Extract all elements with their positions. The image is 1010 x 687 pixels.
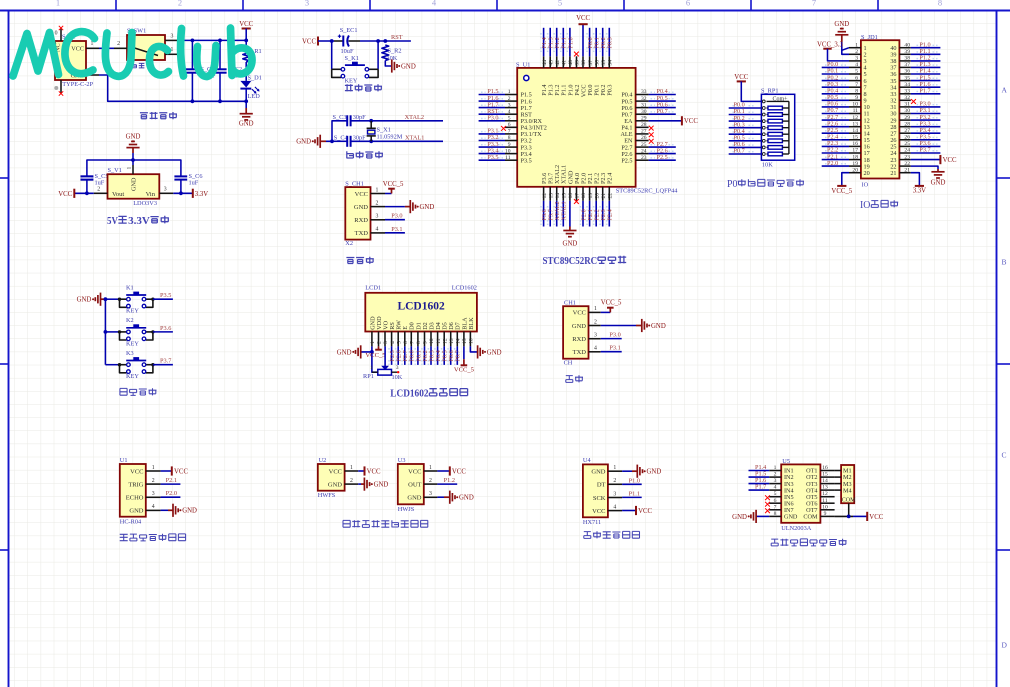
wire U1 VCC	[161, 470, 172, 472]
wire P2.0	[161, 496, 181, 498]
no-ERC bottom pin17	[574, 199, 579, 204]
junction	[383, 39, 387, 43]
svg-text:VCC_5: VCC_5	[601, 300, 622, 307]
svg-text:4: 4	[594, 346, 597, 352]
svg-text:S_D1: S_D1	[248, 74, 262, 81]
svg-text:S_EC1: S_EC1	[340, 27, 358, 34]
svg-text:OUT: OUT	[408, 481, 421, 488]
svg-text:16: 16	[852, 141, 858, 147]
svg-text:2: 2	[429, 478, 432, 484]
svg-text:5: 5	[774, 491, 777, 497]
svg-text:P3.0: P3.0	[487, 115, 498, 122]
svg-text:KEY: KEY	[126, 340, 139, 347]
svg-text:GND: GND	[647, 469, 662, 476]
svg-text:DT: DT	[597, 482, 606, 489]
power VCC JD1 right	[940, 155, 957, 164]
svg-text:10K: 10K	[762, 162, 773, 169]
svg-text:GND: GND	[239, 120, 254, 127]
svg-text:4: 4	[390, 341, 396, 344]
capacitor C3 30pF	[333, 114, 367, 126]
wire VCC rail	[245, 29, 247, 48]
svg-text:VCC: VCC	[592, 508, 605, 515]
svg-text:P1.0: P1.0	[567, 37, 574, 48]
junction	[244, 99, 248, 103]
MCU right pins	[636, 89, 649, 161]
svg-text:1: 1	[508, 89, 511, 95]
svg-text:1: 1	[370, 365, 373, 371]
wire XTAL1	[351, 140, 443, 142]
JD1 left pins	[849, 42, 861, 173]
svg-text:GND: GND	[784, 514, 798, 521]
no-ERC pins 28,27,26	[649, 126, 654, 131]
svg-text:30: 30	[641, 109, 647, 115]
svg-text:P2.5: P2.5	[657, 154, 668, 161]
svg-text:7: 7	[508, 129, 511, 135]
svg-text:P2.0: P2.0	[166, 490, 177, 497]
svg-text:9: 9	[508, 142, 511, 148]
svg-text:38: 38	[904, 56, 910, 62]
JD1 right P1/P3 wires	[911, 41, 941, 153]
svg-text:3: 3	[396, 365, 399, 371]
power VCC_5 JD1	[831, 186, 852, 195]
svg-text:C: C	[1002, 451, 1007, 460]
svg-text:2: 2	[117, 41, 120, 47]
svg-text:LCD1602: LCD1602	[390, 389, 428, 400]
wire VCC to Vout	[74, 192, 93, 194]
svg-text:41: 41	[562, 60, 568, 66]
power VCC U2	[365, 466, 382, 475]
caption 四相五线步进电机	[771, 539, 846, 546]
svg-text:GND: GND	[563, 241, 578, 248]
wire U3 GND	[437, 496, 444, 498]
svg-text:15: 15	[462, 338, 468, 344]
power VCC U4	[636, 506, 653, 515]
svg-text:VCC: VCC	[576, 15, 590, 22]
svg-text:VCC_3.3: VCC_3.3	[817, 42, 843, 49]
svg-text:43: 43	[548, 60, 554, 66]
caption 复位电路	[345, 84, 382, 91]
switch SW1	[114, 28, 181, 69]
svg-text:14: 14	[555, 193, 561, 199]
svg-text:15: 15	[822, 472, 828, 478]
svg-text:1: 1	[774, 465, 777, 471]
caption 压力检测模块	[584, 531, 640, 538]
svg-text:36: 36	[594, 60, 600, 66]
svg-text:22: 22	[904, 161, 910, 167]
potentiometer RP1 10K	[363, 365, 403, 381]
power VCC U1	[172, 466, 189, 475]
svg-text:VCC_5: VCC_5	[383, 181, 404, 188]
junction	[330, 139, 334, 143]
svg-text:7: 7	[410, 341, 416, 344]
ground power circuit	[239, 114, 254, 128]
caption 晶振电路	[347, 151, 383, 158]
svg-text:7: 7	[774, 504, 777, 510]
svg-text:9: 9	[824, 511, 827, 517]
JD1 left P0/P2 wires	[822, 61, 849, 167]
svg-text:P3.5: P3.5	[521, 157, 532, 164]
MCU left pins	[505, 89, 517, 161]
svg-text:1: 1	[56, 0, 60, 8]
junction	[330, 39, 334, 43]
svg-text:P0.7: P0.7	[657, 108, 668, 115]
svg-text:13: 13	[449, 338, 455, 344]
svg-text:22: 22	[608, 193, 614, 199]
svg-text:37: 37	[904, 62, 910, 68]
button bus wires	[105, 298, 119, 300]
svg-text:1uF: 1uF	[189, 180, 199, 187]
caption LCD1602显示模块	[390, 389, 467, 400]
resistor R2 10K	[382, 45, 402, 62]
svg-text:GND: GND	[591, 469, 605, 476]
svg-text:10: 10	[429, 338, 435, 344]
svg-text:P1.7: P1.7	[919, 88, 930, 95]
wire GND to pins 1,2	[842, 42, 849, 54]
svg-text:34: 34	[904, 82, 910, 88]
svg-text:2: 2	[774, 472, 777, 478]
wire U5 GND	[756, 515, 769, 517]
wire pin2 to GND	[385, 206, 405, 208]
button K2	[118, 317, 155, 347]
MCU top wires and net labels	[541, 24, 614, 56]
svg-text:P0.7: P0.7	[455, 350, 462, 361]
svg-text:VCC: VCC	[943, 157, 957, 164]
svg-text:3: 3	[613, 491, 616, 497]
wire T1 GND return	[99, 75, 246, 101]
ground MCU	[569, 227, 571, 231]
svg-text:VCC: VCC	[367, 468, 381, 475]
no-ERC pin6	[501, 126, 506, 131]
svg-text:VCC: VCC	[573, 310, 586, 317]
wire EA to VCC	[649, 120, 682, 122]
svg-text:8: 8	[416, 341, 422, 344]
svg-text:GND: GND	[651, 323, 666, 330]
svg-text:39: 39	[575, 60, 581, 66]
svg-text:4: 4	[774, 485, 777, 491]
ground LCD left	[337, 345, 361, 358]
ground serial	[642, 319, 666, 332]
svg-text:2: 2	[152, 478, 155, 484]
svg-text:44: 44	[542, 60, 548, 66]
svg-text:GND: GND	[374, 482, 389, 489]
wire pin2 GND	[601, 325, 636, 327]
module U4 HX711	[583, 457, 622, 526]
svg-text:18: 18	[581, 193, 587, 199]
svg-text:LCD1: LCD1	[365, 284, 381, 291]
svg-text:GND: GND	[420, 204, 435, 211]
svg-text:10: 10	[505, 148, 511, 154]
svg-text:8: 8	[855, 89, 858, 95]
svg-text:2: 2	[594, 319, 597, 325]
resistor R1 1K	[243, 47, 262, 63]
svg-text:U4: U4	[583, 457, 592, 464]
svg-text:20: 20	[852, 167, 858, 173]
svg-text:HWJS: HWJS	[398, 506, 415, 513]
svg-text:3: 3	[508, 102, 511, 108]
MCUclub logo	[13, 28, 252, 76]
net label P3.0 / wire	[385, 219, 405, 221]
MCU top pins	[542, 56, 614, 68]
svg-text:GND: GND	[296, 139, 311, 146]
power VCC top of rail	[239, 21, 253, 29]
MCU U1 STC89C52RC_LQFP44	[516, 62, 678, 195]
svg-text:XTAL1: XTAL1	[561, 201, 568, 220]
svg-text:HWFS: HWFS	[318, 492, 336, 499]
module U2 HWFS	[318, 457, 358, 499]
capacitor C6 1uF	[174, 173, 202, 187]
svg-text:8: 8	[938, 0, 942, 8]
svg-text:K2: K2	[126, 317, 134, 324]
svg-text:P3.0: P3.0	[391, 213, 402, 220]
capacitor C1 100uF	[186, 40, 216, 101]
svg-text:29: 29	[641, 116, 647, 122]
motor connector M	[835, 465, 857, 516]
JD1 right pins	[899, 42, 910, 173]
ground above LDO	[126, 134, 141, 148]
svg-text:KEY: KEY	[345, 78, 358, 85]
svg-text:P3.5: P3.5	[487, 154, 498, 161]
capacitor C2 10uF	[213, 40, 242, 101]
svg-text:1: 1	[152, 465, 155, 471]
svg-text:19: 19	[852, 161, 858, 167]
svg-text:GND: GND	[77, 297, 92, 304]
svg-text:VCC: VCC	[638, 508, 652, 515]
svg-text:3: 3	[164, 186, 167, 192]
svg-text:4: 4	[613, 504, 616, 510]
no-ERC JD1 pin32	[911, 99, 916, 104]
MCU bottom wires and net labels	[541, 201, 614, 227]
svg-text:3: 3	[855, 56, 858, 62]
svg-text:4: 4	[508, 109, 511, 115]
caption 超声波测距模块	[120, 534, 186, 541]
svg-text:20: 20	[864, 170, 870, 177]
svg-text:P1.2: P1.2	[444, 477, 455, 484]
caption 下载口	[346, 257, 373, 264]
power VCC U5	[867, 512, 884, 521]
svg-text:1: 1	[127, 167, 133, 170]
svg-text:X2: X2	[345, 240, 353, 247]
wire XTAL2	[351, 120, 443, 122]
svg-text:VCC: VCC	[58, 191, 72, 198]
svg-text:P1.0: P1.0	[629, 477, 640, 484]
wire LCD pin16 GND	[470, 346, 477, 352]
svg-text:COM: COM	[842, 498, 856, 504]
svg-text:30: 30	[904, 108, 910, 114]
ground U1	[173, 504, 197, 517]
caption 串口	[566, 375, 583, 382]
wire LDO top rail	[132, 153, 134, 160]
svg-text:D: D	[1002, 641, 1008, 650]
svg-text:P2.5: P2.5	[621, 157, 632, 164]
wire D1 to GND	[245, 89, 247, 108]
ground U3	[450, 491, 474, 504]
caption 分离式红外开关模块	[343, 520, 428, 527]
svg-text:3: 3	[152, 491, 155, 497]
caption 按键电路	[120, 388, 157, 395]
svg-text:40: 40	[904, 42, 910, 48]
svg-text:KEY: KEY	[126, 373, 139, 380]
junction	[179, 191, 183, 195]
svg-text:TXD: TXD	[573, 349, 587, 356]
junction	[244, 39, 248, 43]
svg-text:30pF: 30pF	[353, 134, 366, 141]
svg-text:SCK: SCK	[593, 495, 606, 502]
LCD pins	[370, 332, 475, 347]
svg-text:Vout: Vout	[112, 191, 124, 198]
button K1 reset KEY	[332, 55, 378, 85]
svg-text:TXD: TXD	[355, 230, 369, 237]
svg-text:3.3V: 3.3V	[195, 191, 208, 198]
svg-text:2: 2	[508, 96, 511, 102]
svg-text:VCC: VCC	[869, 514, 883, 521]
svg-text:23: 23	[904, 154, 910, 160]
wire P3.5	[153, 298, 173, 300]
wire P1.2	[437, 483, 457, 485]
svg-text:GND: GND	[129, 508, 143, 515]
svg-text:8: 8	[508, 135, 511, 141]
crystal X1 11.0592M	[367, 121, 403, 142]
svg-text:4: 4	[855, 62, 858, 68]
svg-text:5: 5	[855, 69, 858, 75]
svg-text:31: 31	[904, 102, 910, 108]
wire pin1 to pot	[372, 352, 378, 372]
junction	[369, 119, 373, 123]
svg-text:HC-R04: HC-R04	[120, 518, 142, 525]
svg-text:15: 15	[562, 193, 568, 199]
power 3.3V JD1	[913, 186, 926, 195]
no-ERC IN5,IN6,IN7	[765, 495, 770, 500]
svg-text:24: 24	[904, 148, 910, 154]
svg-text:12: 12	[852, 115, 858, 121]
svg-text:VCC: VCC	[452, 468, 466, 475]
ground reset	[392, 59, 416, 72]
power VCC left	[58, 189, 74, 198]
svg-text:27: 27	[904, 128, 910, 134]
junction	[218, 99, 222, 103]
svg-text:5: 5	[558, 0, 562, 8]
svg-text:18: 18	[852, 154, 858, 160]
svg-text:S_RP1: S_RP1	[761, 88, 779, 95]
svg-text:11: 11	[436, 338, 442, 344]
svg-text:7: 7	[855, 82, 858, 88]
svg-text:5: 5	[396, 341, 402, 344]
svg-text:2: 2	[178, 0, 182, 8]
power VCC EA	[682, 116, 698, 125]
capacitor C5 1uF	[81, 173, 109, 187]
wire U2 GND	[358, 483, 361, 485]
svg-text:12: 12	[542, 193, 548, 199]
svg-text:P3.1: P3.1	[391, 226, 402, 233]
ground buttons	[77, 293, 101, 306]
junction	[218, 39, 222, 43]
wire SW1 pin3 to VCC rail	[179, 39, 246, 41]
wire U1 GND	[161, 509, 168, 511]
svg-text:25: 25	[904, 141, 910, 147]
svg-text:ULN2003A: ULN2003A	[781, 525, 812, 532]
svg-text:15: 15	[852, 135, 858, 141]
svg-text:32: 32	[904, 95, 910, 101]
svg-text:K3: K3	[126, 350, 134, 357]
junction	[191, 39, 195, 43]
ground U4	[637, 465, 661, 478]
svg-text:3.3V: 3.3V	[128, 216, 150, 227]
svg-text:33: 33	[641, 89, 647, 95]
wire VCC_3.3 to pin3	[828, 49, 850, 61]
svg-text:6: 6	[774, 498, 777, 504]
svg-text:P2.0: P2.0	[827, 160, 838, 167]
svg-text:P0: P0	[727, 179, 737, 190]
MCU bottom pins	[542, 187, 614, 201]
svg-text:P0.3: P0.3	[607, 37, 614, 48]
svg-text:VCC: VCC	[329, 468, 342, 475]
svg-text:24: 24	[641, 148, 647, 154]
svg-text:14: 14	[456, 338, 462, 344]
svg-text:GND: GND	[126, 134, 141, 141]
svg-text:3: 3	[594, 333, 597, 339]
svg-text:P3.1: P3.1	[609, 345, 620, 352]
svg-text:5: 5	[508, 116, 511, 122]
svg-text:P0.7: P0.7	[734, 148, 745, 155]
svg-text:6: 6	[403, 341, 409, 344]
ground JD1 top	[834, 21, 849, 35]
svg-text:COM: COM	[803, 514, 818, 521]
svg-text:XTAL2: XTAL2	[405, 114, 424, 121]
svg-text:17: 17	[575, 193, 581, 199]
svg-text:TRIG: TRIG	[128, 481, 143, 488]
svg-text:ECHO: ECHO	[126, 495, 144, 502]
MCU left wires and net labels	[479, 88, 505, 161]
power VCC pullup	[734, 74, 748, 81]
svg-text:40: 40	[568, 60, 574, 66]
wire P3.0	[601, 338, 622, 340]
wire P1.0	[622, 483, 642, 485]
ground U5	[732, 510, 756, 523]
svg-text:1: 1	[613, 465, 616, 471]
power VCC_3.3	[817, 42, 843, 49]
svg-text:6: 6	[686, 0, 690, 8]
pullup wires P0.0-P0.7	[729, 102, 762, 155]
svg-text:3: 3	[171, 33, 174, 39]
svg-text:KEY: KEY	[126, 308, 139, 315]
svg-text:VCC: VCC	[355, 191, 368, 198]
svg-text:29: 29	[904, 115, 910, 121]
svg-text:9: 9	[855, 95, 858, 101]
LCD data/control wires	[389, 346, 462, 365]
svg-text:P3.5: P3.5	[160, 292, 171, 299]
svg-text:0: 0	[55, 31, 58, 37]
svg-text:U3: U3	[398, 457, 406, 464]
caption 电源电路	[140, 112, 177, 119]
wire EC1 to RST	[360, 40, 411, 42]
LED D1	[240, 74, 261, 100]
svg-text:42: 42	[555, 60, 561, 66]
svg-text:RXD: RXD	[354, 217, 368, 224]
svg-text:GND: GND	[337, 349, 352, 356]
svg-text:1: 1	[429, 465, 432, 471]
svg-text:TYPE-C-2P: TYPE-C-2P	[62, 81, 93, 88]
svg-text:10: 10	[822, 504, 828, 510]
svg-text:GND: GND	[834, 21, 849, 28]
svg-text:U2: U2	[319, 457, 327, 464]
wire R1 to D1	[245, 62, 247, 81]
svg-text:U1: U1	[120, 457, 128, 464]
wire pin23 to VCC	[911, 159, 941, 161]
svg-text:16: 16	[568, 193, 574, 199]
svg-text:35: 35	[601, 60, 607, 66]
module U1 HC-R04	[120, 457, 161, 526]
capacitor C4 30pF	[332, 134, 366, 147]
caption 5V转3.3V电路	[107, 216, 169, 227]
